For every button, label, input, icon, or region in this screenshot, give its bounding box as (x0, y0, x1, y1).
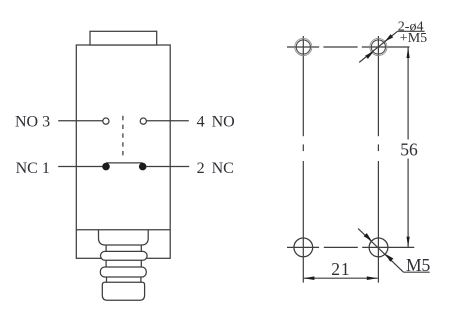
dimension 21 arrow left (304, 276, 315, 280)
leader line to M5 label (358, 229, 403, 273)
label underline (398, 30, 425, 32)
plunger ring 1 (101, 251, 148, 260)
plunger ring 2 (100, 267, 146, 277)
contact NC bridge wire (106, 162, 143, 164)
centerline vertical right column (377, 36, 379, 136)
centerline horizontal top row (287, 46, 319, 48)
dimension 56 arrow up (407, 47, 410, 58)
leader line to 2-ø4 label (359, 31, 397, 62)
dimension 56 arrow down (407, 237, 410, 248)
wire NO3 lead (58, 120, 102, 122)
svg-text:+M5: +M5 (400, 31, 427, 46)
wire NC1 lead (58, 166, 103, 168)
svg-text:NO 3: NO 3 (15, 114, 50, 131)
centerline horizontal bottom row (287, 246, 319, 248)
actuator dashed line (122, 116, 124, 158)
svg-text:56: 56 (400, 139, 418, 159)
plunger tip (102, 282, 144, 300)
mounting hole bottom-left (294, 238, 313, 257)
svg-text:NC 1: NC 1 (16, 160, 50, 177)
mounting hole top-left (tapped M5) (295, 38, 312, 55)
dimension 21 arrow right (367, 276, 378, 280)
svg-text:2 NC: 2 NC (197, 160, 234, 177)
contact NC left (closed dot) (102, 163, 110, 171)
switch cap (90, 31, 157, 45)
mounting plan: centerlines (287, 36, 414, 283)
wire 4NO lead (146, 120, 188, 122)
svg-text:21: 21 (331, 259, 350, 279)
body divider line (76, 229, 170, 231)
plunger neck 3 (106, 277, 108, 282)
dimension 21 line (303, 277, 377, 279)
contact NO left (open) (103, 118, 109, 124)
contact NO right (open) (140, 118, 146, 124)
plunger bell (99, 230, 149, 245)
centerline vertical left column (302, 36, 304, 136)
mounting hole bottom-right (369, 238, 388, 257)
switch body (76, 45, 170, 258)
mounting hole top-right (tapped M5) (370, 38, 387, 55)
arrowhead on bottom-right hole upper-left (364, 233, 372, 241)
arrowhead on top-right hole upper-right (385, 34, 393, 41)
wire 2NC lead (147, 166, 190, 168)
contact NC right (closed dot) (139, 163, 147, 171)
plunger neck 1 (105, 245, 107, 251)
arrowhead on bottom-right hole lower-right (385, 254, 393, 262)
svg-text:4 NO: 4 NO (197, 114, 235, 131)
arrowhead on top-right hole lower-left (365, 51, 374, 59)
plunger neck 2 (105, 260, 107, 267)
dimension 56 line (407, 48, 409, 247)
M5 underline (404, 271, 430, 273)
